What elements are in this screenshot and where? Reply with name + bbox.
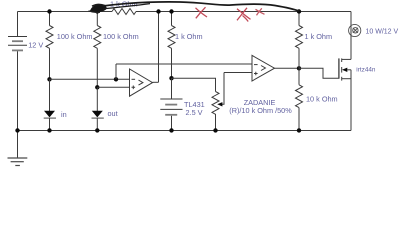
- battery B1 value label 12 V: [28, 40, 43, 49]
- svg-text:out: out: [108, 109, 118, 118]
- lamp LP1 label 10 W/12 V: [366, 29, 399, 36]
- label (R)/10 k Ohm /50%: [229, 106, 292, 115]
- wire U1 output to top rail: [158, 12, 160, 83]
- node E junction: [297, 66, 301, 70]
- resistor R1 value label: [57, 32, 93, 41]
- potentiometer RV1 wiper arrow: [217, 73, 224, 107]
- diode D2: [92, 111, 104, 118]
- wire TL431 to bottom rail: [171, 116, 173, 131]
- wire U1 output stub: [153, 81, 159, 83]
- wire wiper to op-amp U2 non-inverting input: [224, 72, 252, 74]
- wire node E to MOSFET gate: [299, 68, 339, 78]
- battery B1 lead bottom: [17, 51, 19, 130]
- resistor R4 1k lead top: [171, 12, 173, 26]
- wire MOSFET source to bottom rail: [350, 70, 352, 131]
- diode D2 label out: [108, 109, 118, 118]
- potentiometer RV1 track: [212, 92, 219, 131]
- wire node B to diode D2: [96, 87, 98, 111]
- junction bottom rail below R6: [297, 128, 301, 132]
- resistor R6 10 k Ohm: [296, 85, 303, 108]
- resistor R4 value label: [175, 32, 203, 41]
- junction top rail above R2: [95, 9, 99, 13]
- lamp LP1: [349, 24, 361, 36]
- resistor R5 value label: [305, 32, 333, 41]
- junction top rail above U1 output: [156, 9, 160, 13]
- resistor R1 100 k Ohm: [46, 26, 53, 49]
- svg-text:100 k Ohm: 100 k Ohm: [103, 32, 139, 41]
- diode D1: [44, 111, 56, 118]
- svg-text:100 k Ohm: 100 k Ohm: [57, 32, 93, 41]
- wire top rail left: [18, 11, 113, 13]
- wire lamp to MOSFET drain: [350, 12, 352, 60]
- resistor R5 1 k Ohm: [296, 26, 303, 49]
- wire top rail right: [136, 11, 351, 13]
- node D junction: [169, 76, 173, 80]
- wire R2 to node B: [96, 48, 98, 87]
- wire node B to op-amp U1 non-inverting input: [97, 86, 129, 88]
- wire R4 to node D: [171, 48, 173, 78]
- svg-text:in: in: [61, 110, 67, 119]
- annotation pen scribble blob: [89, 4, 151, 13]
- op-amp U1: [130, 69, 153, 96]
- wire node A to op-amp U1 inverting input: [50, 78, 130, 80]
- wire R5 to node E: [298, 48, 300, 68]
- junction top rail above R5: [297, 9, 301, 13]
- annotation red X mark 3: [256, 8, 265, 15]
- node A junction: [47, 77, 51, 81]
- svg-text:12 V: 12 V: [28, 40, 43, 49]
- wire feedback vertical at node C: [115, 64, 117, 79]
- resistor R1 100k lead top: [49, 12, 51, 26]
- junction top rail above R1: [47, 9, 51, 13]
- junction bottom rail below TL431: [169, 128, 173, 132]
- svg-text:irtz44n: irtz44n: [356, 67, 376, 74]
- node B junction: [95, 85, 99, 89]
- junction bottom rail below D1: [47, 128, 51, 132]
- annotation red X mark 1: [196, 7, 208, 18]
- wire D1 to bottom rail: [49, 118, 51, 130]
- resistor R2 100 k Ohm: [94, 26, 101, 49]
- voltage reference TL431 symbol: [160, 99, 182, 115]
- annotation pen scribble arc: [103, 2, 300, 11]
- wire bottom rail: [18, 130, 352, 132]
- junction top rail above R4: [169, 9, 173, 13]
- svg-text:10 k Ohm: 10 k Ohm: [306, 94, 338, 103]
- ground: [8, 131, 28, 166]
- battery B1 lead top: [17, 12, 19, 37]
- transistor Q1 label irtz44n: [356, 67, 376, 74]
- resistor R3 1 k Ohm horizontal: [112, 9, 136, 15]
- svg-text:(R)/10 k Ohm /50%: (R)/10 k Ohm /50%: [229, 106, 292, 115]
- svg-text:10 W/12 V: 10 W/12 V: [366, 29, 399, 36]
- resistor R2 100k lead top: [96, 12, 98, 26]
- resistor R2 value label: [103, 32, 139, 41]
- junction bottom rail below D2: [95, 128, 99, 132]
- TL431 label: [184, 100, 205, 109]
- svg-text:2.5 V: 2.5 V: [186, 108, 203, 117]
- label ZADANIE: [244, 98, 276, 107]
- junction bottom rail below RV1: [213, 128, 217, 132]
- TL431 voltage label 2.5 V: [186, 108, 203, 117]
- wire node D to TL431: [171, 78, 173, 99]
- wire R1 to node A: [49, 48, 51, 79]
- resistor R5 1k lead top: [298, 12, 300, 26]
- resistor R6 10k lead top: [298, 68, 300, 85]
- node C junction on inverting input: [114, 77, 118, 81]
- wire U2 output to node E: [275, 67, 300, 69]
- diode D1 label in: [61, 110, 67, 119]
- wire feedback horizontal U1 output to U2 inverting input: [116, 63, 252, 65]
- wire R6 to bottom rail: [298, 108, 300, 131]
- wire D2 to bottom rail: [96, 118, 98, 130]
- resistor R3 value label 1 k Ohm: [110, 0, 138, 9]
- svg-text:1 k Ohm: 1 k Ohm: [305, 32, 333, 41]
- junction bottom rail at battery: [15, 128, 19, 132]
- battery B1 12V: [8, 37, 27, 51]
- annotation red X mark 2: [237, 8, 251, 22]
- wire node D to potentiometer top: [172, 78, 216, 91]
- transistor Q1 MOSFET irtz44n: [339, 58, 351, 80]
- wire node A to diode D1: [49, 79, 51, 111]
- svg-text:1 k Ohm: 1 k Ohm: [175, 32, 203, 41]
- resistor R4 1 k Ohm: [168, 26, 175, 49]
- op-amp U2: [252, 55, 275, 81]
- resistor R6 value label: [306, 94, 338, 103]
